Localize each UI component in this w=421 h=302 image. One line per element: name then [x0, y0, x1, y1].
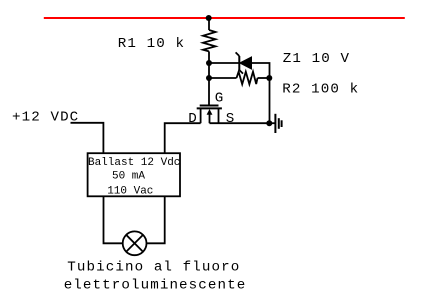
svg-text:R2 100 k: R2 100 k [282, 82, 359, 98]
resistor R2 [237, 72, 258, 85]
wire ballast left to lamp [104, 196, 123, 243]
wire node A to zener cathode [209, 62, 239, 64]
wire R1 to node A [208, 51, 210, 63]
lamp (tube) [123, 231, 147, 255]
wire rail to R1 [208, 18, 210, 30]
node: rail / R1 junction [206, 15, 212, 21]
wire right rail down to source node [269, 78, 271, 123]
wire R2 to right rail [258, 77, 270, 79]
resistor R1 [203, 30, 216, 51]
wire zener anode to right rail [252, 63, 270, 78]
node D (source/ground junction) [266, 120, 272, 126]
node C (R2 / right rail junction) [266, 75, 272, 81]
wire +12 VDC to ballast [71, 123, 104, 153]
wire source to ground node [210, 122, 270, 124]
svg-text:G: G [215, 90, 225, 106]
svg-text:+12 VDC: +12 VDC [12, 109, 79, 125]
svg-text:D: D [188, 111, 198, 127]
wire ballast right to lamp [147, 196, 165, 243]
svg-text:R1 10 k: R1 10 k [118, 36, 185, 52]
node A (zener tap) [206, 60, 212, 66]
ground [270, 114, 282, 133]
svg-text:Z1 10 V: Z1 10 V [283, 51, 350, 67]
svg-text:S: S [226, 111, 236, 127]
ballast box [88, 153, 180, 196]
zener diode Z1 [236, 52, 252, 73]
svg-text:50 mA: 50 mA [112, 170, 145, 182]
svg-text:Tubicino al fluoro: Tubicino al fluoro [67, 259, 240, 275]
svg-text:Ballast 12 Vdc: Ballast 12 Vdc [88, 157, 180, 169]
transistor Q1 (MOSFET) [197, 106, 222, 124]
node B (R2 tap / gate) [206, 75, 212, 81]
svg-text:elettroluminescente: elettroluminescente [64, 277, 247, 293]
wire node B to gate [208, 78, 210, 106]
svg-text:110 Vac: 110 Vac [107, 185, 153, 197]
wire node A to node B [208, 63, 210, 78]
wire node B to R2 [209, 77, 237, 79]
power rail +V (red bus) [44, 17, 405, 19]
wire drain to ballast [165, 123, 201, 153]
